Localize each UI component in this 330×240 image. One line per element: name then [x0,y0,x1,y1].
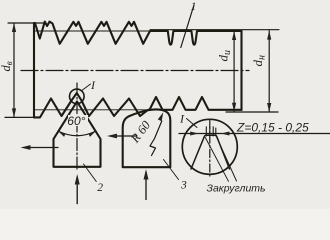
arrowhead d_i top [232,31,236,40]
detail: long Z reference line [179,133,330,135]
arrowhead 60deg arc left [58,131,66,137]
arrowhead R60 [158,112,164,121]
wire: d_v bottom extension line [5,116,40,118]
dimension d_v line [13,23,15,117]
arrowhead Z left (points right) [190,132,199,136]
node: rod centerline (dash-dot axis) [21,70,249,72]
leader lines to Zakruglit label [205,137,236,181]
detail view I circle (large) [182,119,237,174]
wire: rod left edge [33,23,35,117]
arrowhead Z right (points left) [221,132,230,136]
wheel 3 radius leader with jog [150,121,162,156]
wheel 2 60-degree arc [58,131,96,136]
detail marker circle (small) [70,89,85,104]
leader to label 2 [84,164,97,182]
wheel 3 feed arrow up [145,172,147,200]
grinding wheel 3 body [123,109,171,167]
dimension d_n line [268,31,270,112]
wire: thin blank line through bottom teeth [34,109,148,111]
wire: rod right edge [240,31,242,110]
detail: crest hatch ticks [206,127,216,137]
arrowhead 60deg arc right [89,131,97,137]
detail: tooth profile with rounded crest [191,135,230,169]
grinding wheel 2 body [54,102,101,167]
label 60 degrees [68,115,88,126]
leader to small detail label I [82,84,91,91]
wheel 2 centerline [76,83,78,171]
wire: top thread profile outline [34,22,242,45]
wire: right bottom extension line [226,111,278,113]
arrowhead d_v top [12,23,16,32]
arrowhead wheel2 up [75,174,80,185]
arrowhead d_v bottom [12,108,16,117]
arrowhead wheel3 left [107,134,117,139]
wire: bottom thread profile outline [34,93,242,117]
wire: thin blank line through top teeth [34,30,150,32]
wheel 2 feed arrow up [76,177,78,204]
arrowhead wheel2 left [21,145,31,150]
arrowhead d_i bottom [232,103,236,112]
wheel 2 feed arrow left [25,147,58,149]
detail circle centerline [209,121,211,178]
leader to detail label I [187,119,198,128]
arrowhead d_n bottom [267,103,271,112]
leader to label 1 [181,6,194,48]
arrowhead d_n top [267,31,271,40]
wire: right top extension line [150,29,279,31]
arrowhead wheel3 up [144,169,149,179]
wire: d_v top extension line [8,22,45,24]
leader to label 3 [164,160,179,180]
dimension d_i line [233,31,235,112]
wheel 3 feed arrow left [111,135,137,137]
